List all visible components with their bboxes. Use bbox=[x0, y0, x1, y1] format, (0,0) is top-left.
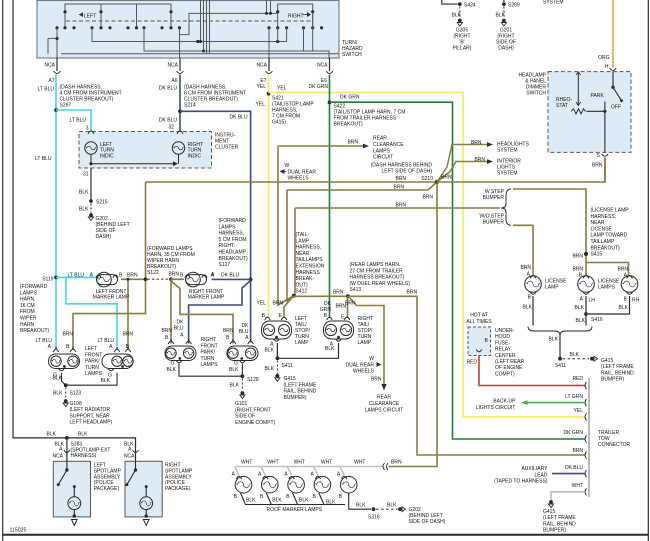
svg-text:NEAR: NEAR bbox=[296, 251, 310, 257]
svg-text:115025: 115025 bbox=[10, 528, 27, 534]
svg-text:YEL: YEL bbox=[277, 86, 287, 92]
svg-text:PACKAGE): PACKAGE) bbox=[94, 486, 120, 492]
svg-text:BLK: BLK bbox=[576, 318, 586, 324]
svg-text:WHT: WHT bbox=[241, 459, 252, 465]
svg-text:S424: S424 bbox=[464, 3, 476, 9]
svg-text:BRN: BRN bbox=[333, 290, 344, 296]
svg-text:BRN: BRN bbox=[127, 273, 138, 279]
svg-text:TURN: TURN bbox=[85, 365, 99, 371]
svg-text:PARK/: PARK/ bbox=[85, 359, 100, 365]
svg-text:32: 32 bbox=[168, 125, 174, 131]
svg-text:DK BLU: DK BLU bbox=[230, 115, 248, 121]
svg-text:S214: S214 bbox=[184, 103, 196, 109]
svg-text:BLK: BLK bbox=[167, 367, 177, 373]
svg-text:BLK: BLK bbox=[619, 305, 629, 311]
svg-text:G415: G415 bbox=[284, 376, 296, 382]
svg-text:FROM: FROM bbox=[20, 309, 35, 315]
svg-text:INDIC: INDIC bbox=[188, 153, 202, 159]
svg-text:HOOD: HOOD bbox=[495, 334, 510, 340]
svg-text:BRN: BRN bbox=[441, 175, 452, 181]
svg-text:DK BLU: DK BLU bbox=[565, 465, 583, 471]
svg-text:LEFT: LEFT bbox=[84, 13, 96, 19]
svg-text:LT BLU: LT BLU bbox=[70, 118, 87, 124]
svg-text:HARNESS,: HARNESS, bbox=[219, 231, 245, 237]
svg-text:WIPER: WIPER bbox=[20, 316, 37, 322]
svg-text:(LEFT FRAME: (LEFT FRAME bbox=[543, 515, 576, 521]
svg-text:SYSTEM: SYSTEM bbox=[497, 148, 518, 154]
svg-text:BRN: BRN bbox=[122, 332, 133, 338]
svg-text:CLEARANCE: CLEARANCE bbox=[373, 142, 404, 148]
svg-text:MARKER LAMP: MARKER LAMP bbox=[93, 295, 130, 301]
svg-text:BRN: BRN bbox=[422, 195, 433, 201]
svg-text:S415: S415 bbox=[591, 252, 603, 258]
svg-text:BACK-UP: BACK-UP bbox=[493, 399, 516, 405]
svg-text:YEL: YEL bbox=[574, 408, 584, 414]
svg-text:RED: RED bbox=[572, 376, 583, 382]
svg-text:DK BLU: DK BLU bbox=[221, 273, 239, 279]
svg-text:S215: S215 bbox=[96, 200, 108, 206]
svg-text:G101: G101 bbox=[235, 401, 247, 407]
svg-text:WHT: WHT bbox=[267, 459, 278, 465]
svg-text:S412: S412 bbox=[296, 289, 308, 295]
svg-text:S128: S128 bbox=[247, 377, 259, 383]
svg-text:DK BLU: DK BLU bbox=[159, 86, 177, 92]
svg-text:EXTENSION: EXTENSION bbox=[296, 264, 325, 270]
svg-text:S210: S210 bbox=[421, 176, 433, 182]
svg-text:HARNESS BREAKOUT): HARNESS BREAKOUT) bbox=[350, 275, 405, 281]
svg-text:LEFT HEADLAMP): LEFT HEADLAMP) bbox=[70, 420, 113, 426]
svg-text:3: 3 bbox=[86, 126, 89, 132]
svg-text:LICENSE: LICENSE bbox=[591, 226, 613, 232]
svg-text:BLK: BLK bbox=[47, 432, 57, 438]
svg-text:S316: S316 bbox=[368, 514, 380, 520]
svg-text:BLK: BLK bbox=[387, 503, 397, 509]
svg-text:BRN: BRN bbox=[347, 140, 358, 146]
svg-text:BRN: BRN bbox=[572, 254, 583, 260]
svg-text:CLEARANCE: CLEARANCE bbox=[369, 401, 400, 407]
svg-text:27 CM FROM TRAILER: 27 CM FROM TRAILER bbox=[350, 268, 404, 274]
svg-text:PARK: PARK bbox=[591, 93, 605, 99]
svg-text:BLK: BLK bbox=[101, 378, 111, 384]
svg-text:G202: G202 bbox=[409, 507, 421, 513]
svg-text:BUMPER): BUMPER) bbox=[543, 528, 566, 534]
svg-text:UNDER-: UNDER- bbox=[495, 328, 515, 334]
svg-text:CONNECTOR: CONNECTOR bbox=[598, 442, 631, 448]
svg-text:LT BLU: LT BLU bbox=[38, 87, 55, 93]
svg-text:DASH): DASH) bbox=[96, 234, 112, 240]
svg-text:NCA: NCA bbox=[256, 63, 267, 69]
svg-text:YEL: YEL bbox=[257, 301, 267, 307]
svg-text:S416: S416 bbox=[591, 317, 603, 323]
svg-text:BLK: BLK bbox=[299, 498, 309, 504]
svg-text:FRONT: FRONT bbox=[201, 343, 218, 349]
svg-text:SIDE OF: SIDE OF bbox=[235, 414, 255, 420]
svg-text:BLK: BLK bbox=[575, 305, 585, 311]
svg-text:BLK: BLK bbox=[53, 391, 63, 397]
svg-text:BRN: BRN bbox=[592, 163, 603, 169]
svg-text:(TAPED TO HARNESS): (TAPED TO HARNESS) bbox=[494, 479, 548, 485]
svg-text:BLK: BLK bbox=[229, 367, 239, 373]
svg-text:LAMP: LAMP bbox=[296, 238, 310, 244]
svg-text:NCA: NCA bbox=[124, 453, 135, 459]
svg-text:LEFT SIDE OF DASH): LEFT SIDE OF DASH) bbox=[382, 169, 433, 175]
svg-text:CIRCUIT: CIRCUIT bbox=[373, 155, 393, 161]
svg-text:BRN: BRN bbox=[391, 459, 402, 465]
svg-text:DK GRN: DK GRN bbox=[309, 84, 329, 90]
svg-text:(FORWARD LAMPS: (FORWARD LAMPS bbox=[147, 246, 193, 252]
svg-text:(BEHIND LEFT: (BEHIND LEFT bbox=[409, 513, 443, 519]
svg-text:AUXILIARY: AUXILIARY bbox=[521, 466, 548, 472]
svg-text:LAMP: LAMP bbox=[358, 340, 372, 346]
svg-text:FUSE-: FUSE- bbox=[495, 340, 510, 346]
svg-text:RELAY: RELAY bbox=[495, 347, 512, 353]
svg-text:(LICENSE LAMP: (LICENSE LAMP bbox=[591, 208, 630, 214]
svg-text:LAMP: LAMP bbox=[295, 340, 309, 346]
svg-text:31: 31 bbox=[83, 172, 89, 178]
svg-text:BLK: BLK bbox=[265, 348, 275, 354]
svg-text:BRN: BRN bbox=[407, 290, 418, 296]
svg-text:GRN: GRN bbox=[320, 307, 332, 313]
svg-text:BREAKOUT): BREAKOUT) bbox=[591, 245, 621, 251]
svg-text:HARNESS): HARNESS) bbox=[71, 453, 97, 459]
svg-text:(FORWARD: (FORWARD bbox=[219, 218, 247, 224]
svg-text:S269: S269 bbox=[508, 3, 520, 9]
svg-text:BLK: BLK bbox=[246, 498, 256, 504]
svg-text:BRN: BRN bbox=[168, 272, 179, 278]
svg-text:BRN: BRN bbox=[272, 301, 283, 307]
svg-text:LEFT: LEFT bbox=[85, 346, 97, 352]
svg-text:S122: S122 bbox=[147, 270, 159, 276]
svg-text:LT BLU: LT BLU bbox=[68, 273, 85, 279]
svg-text:HOT AT: HOT AT bbox=[470, 313, 488, 319]
svg-text:BRN: BRN bbox=[471, 140, 482, 146]
svg-text:RAIL, BEHIND: RAIL, BEHIND bbox=[601, 370, 634, 376]
svg-text:BLK: BLK bbox=[523, 305, 533, 311]
svg-text:NEAR: NEAR bbox=[591, 220, 605, 226]
svg-text:WHT: WHT bbox=[354, 459, 365, 465]
svg-text:OUT): OUT) bbox=[296, 282, 309, 288]
svg-text:BREAKOUT): BREAKOUT) bbox=[334, 122, 364, 128]
svg-text:G: G bbox=[108, 373, 112, 379]
svg-text:WHEELS: WHEELS bbox=[353, 369, 375, 375]
svg-text:NCA: NCA bbox=[167, 63, 178, 69]
svg-text:BRN: BRN bbox=[395, 203, 406, 209]
svg-text:ROOF MARKER LAMPS: ROOF MARKER LAMPS bbox=[267, 507, 323, 513]
svg-text:S119: S119 bbox=[42, 277, 54, 283]
svg-text:LT BLU: LT BLU bbox=[35, 156, 52, 162]
svg-text:ORG: ORG bbox=[598, 55, 610, 61]
svg-text:YEL: YEL bbox=[256, 102, 266, 108]
svg-text:HARNESS,: HARNESS, bbox=[591, 214, 617, 220]
svg-text:BRN: BRN bbox=[345, 301, 356, 307]
svg-text:S411: S411 bbox=[282, 363, 294, 369]
svg-text:(LEFT REAR: (LEFT REAR bbox=[495, 359, 524, 365]
svg-text:S411: S411 bbox=[555, 363, 567, 369]
svg-text:PACKAGE): PACKAGE) bbox=[165, 486, 191, 492]
svg-text:LH: LH bbox=[589, 298, 596, 304]
svg-text:BREAKOUT): BREAKOUT) bbox=[147, 264, 177, 270]
svg-text:BRN: BRN bbox=[474, 157, 485, 163]
svg-text:G108: G108 bbox=[70, 401, 82, 407]
svg-text:HARN,: HARN, bbox=[20, 297, 36, 303]
svg-text:PARK/: PARK/ bbox=[201, 350, 216, 356]
svg-text:LT GRN: LT GRN bbox=[565, 394, 583, 400]
svg-text:BLK: BLK bbox=[265, 366, 275, 372]
svg-text:BLK: BLK bbox=[78, 432, 88, 438]
svg-text:(LEFT RADIATOR: (LEFT RADIATOR bbox=[70, 407, 111, 413]
svg-text:(REAR LAMPS HARN,: (REAR LAMPS HARN, bbox=[350, 262, 401, 268]
svg-text:BLK: BLK bbox=[230, 383, 240, 389]
svg-text:LEAD: LEAD bbox=[534, 472, 547, 478]
svg-text:RIGHT: RIGHT bbox=[201, 337, 217, 343]
svg-text:S267: S267 bbox=[60, 103, 72, 109]
svg-text:SIDE OF DASH): SIDE OF DASH) bbox=[409, 519, 446, 525]
svg-text:LAMPS CIRCUIT: LAMPS CIRCUIT bbox=[365, 407, 404, 413]
svg-text:LIGHTS CIRCUIT: LIGHTS CIRCUIT bbox=[476, 405, 516, 411]
svg-text:S413: S413 bbox=[350, 287, 362, 293]
svg-text:G: G bbox=[53, 373, 57, 379]
svg-text:OFF: OFF bbox=[611, 105, 621, 111]
svg-text:BUMPER: BUMPER bbox=[483, 195, 505, 201]
svg-text:NCA: NCA bbox=[52, 453, 63, 459]
svg-text:LAMPS: LAMPS bbox=[598, 285, 616, 291]
svg-text:NCA: NCA bbox=[44, 63, 55, 69]
svg-text:G: G bbox=[171, 361, 175, 367]
svg-text:A6: A6 bbox=[171, 78, 177, 84]
svg-text:LICENSE: LICENSE bbox=[545, 279, 567, 285]
svg-text:BLK: BLK bbox=[549, 337, 559, 343]
svg-text:LAMP: LAMP bbox=[545, 285, 559, 291]
svg-text:RED: RED bbox=[466, 360, 477, 366]
svg-text:(LEFT FRAME: (LEFT FRAME bbox=[601, 364, 634, 370]
svg-text:HARNESS: HARNESS bbox=[296, 270, 321, 276]
svg-text:BRN: BRN bbox=[572, 448, 583, 454]
svg-text:BLK: BLK bbox=[356, 503, 366, 509]
svg-text:BRN: BRN bbox=[371, 377, 382, 383]
svg-text:ENGINE COMPT): ENGINE COMPT) bbox=[235, 420, 276, 426]
svg-text:BRN: BRN bbox=[161, 328, 172, 334]
svg-text:BRN: BRN bbox=[62, 332, 73, 338]
svg-text:S123: S123 bbox=[70, 391, 82, 397]
svg-text:G415: G415 bbox=[601, 358, 613, 364]
svg-text:A7: A7 bbox=[48, 78, 54, 84]
svg-text:LAMPS: LAMPS bbox=[373, 148, 391, 154]
svg-text:(RIGHT FRONT: (RIGHT FRONT bbox=[235, 407, 271, 413]
svg-text:WHT: WHT bbox=[321, 459, 332, 465]
svg-text:SYSTEM: SYSTEM bbox=[497, 171, 518, 177]
svg-text:W: W bbox=[285, 163, 290, 169]
svg-text:(LEFT FRAME: (LEFT FRAME bbox=[284, 382, 317, 388]
svg-text:TAILLAMP: TAILLAMP bbox=[591, 239, 615, 245]
svg-text:BRN: BRN bbox=[395, 176, 406, 182]
svg-text:CLUSTER: CLUSTER bbox=[215, 144, 239, 150]
svg-text:ALL TIMES: ALL TIMES bbox=[466, 319, 492, 325]
svg-text:YEL: YEL bbox=[257, 84, 267, 90]
svg-text:MARKER LAMP: MARKER LAMP bbox=[188, 295, 225, 301]
svg-text:HARN: HARN bbox=[20, 322, 35, 328]
svg-text:WHT: WHT bbox=[294, 459, 305, 465]
svg-text:DK GRN: DK GRN bbox=[340, 94, 360, 100]
svg-text:SYSTEM: SYSTEM bbox=[543, 0, 564, 5]
svg-text:RIGHT: RIGHT bbox=[288, 13, 304, 19]
svg-text:5 CM FROM: 5 CM FROM bbox=[219, 237, 247, 243]
svg-text:BREAKOUT): BREAKOUT) bbox=[20, 328, 50, 334]
svg-text:REAR: REAR bbox=[377, 395, 391, 401]
svg-text:WHEELS: WHEELS bbox=[288, 176, 310, 182]
svg-text:RH: RH bbox=[632, 298, 640, 304]
svg-text:SWITCH: SWITCH bbox=[342, 52, 362, 58]
svg-text:BLK: BLK bbox=[79, 207, 89, 213]
svg-text:REAR: REAR bbox=[373, 136, 387, 142]
svg-text:HEADLAMP: HEADLAMP bbox=[219, 250, 247, 256]
svg-text:S127: S127 bbox=[219, 262, 231, 268]
svg-text:LICENSE: LICENSE bbox=[598, 279, 620, 285]
svg-text:BLK: BLK bbox=[570, 352, 580, 358]
svg-text:BLK: BLK bbox=[79, 190, 89, 196]
svg-text:INDIC: INDIC bbox=[100, 153, 114, 159]
svg-text:DASH): DASH) bbox=[498, 46, 514, 52]
svg-text:BREAK-: BREAK- bbox=[296, 276, 315, 282]
svg-text:BUMPER): BUMPER) bbox=[601, 377, 624, 383]
svg-text:(FORWARD: (FORWARD bbox=[20, 284, 48, 290]
svg-text:DK GRN: DK GRN bbox=[564, 430, 584, 436]
svg-text:(W DUEL REAR WHEELS): (W DUEL REAR WHEELS) bbox=[350, 281, 411, 287]
svg-text:BLU: BLU bbox=[174, 326, 184, 332]
svg-text:G: G bbox=[234, 361, 238, 367]
svg-text:BREAKOUT): BREAKOUT) bbox=[219, 256, 249, 262]
svg-text:BUMPER): BUMPER) bbox=[284, 395, 307, 401]
svg-text:COMPT): COMPT) bbox=[495, 371, 515, 377]
svg-text:RAIL, BEHIND: RAIL, BEHIND bbox=[543, 521, 576, 527]
svg-text:W: W bbox=[369, 356, 374, 362]
svg-text:STAT: STAT bbox=[556, 103, 568, 109]
svg-text:SWITCH: SWITCH bbox=[526, 91, 546, 97]
svg-text:G415: G415 bbox=[543, 509, 555, 515]
svg-text:TURN: TURN bbox=[201, 356, 215, 362]
svg-text:WHT: WHT bbox=[572, 483, 583, 489]
svg-text:RIGHT: RIGHT bbox=[219, 243, 235, 249]
svg-text:(TAIL-: (TAIL- bbox=[296, 232, 310, 238]
svg-text:HARNESS,: HARNESS, bbox=[296, 245, 322, 251]
svg-text:SUPPORT, NEAR: SUPPORT, NEAR bbox=[70, 413, 111, 419]
svg-text:BRN: BRN bbox=[393, 185, 404, 191]
svg-text:BUMPER: BUMPER bbox=[483, 220, 505, 226]
svg-text:LAMPS: LAMPS bbox=[219, 224, 237, 230]
svg-text:BRN: BRN bbox=[223, 328, 234, 334]
svg-text:PILLAR): PILLAR) bbox=[453, 46, 472, 52]
svg-text:BLK: BLK bbox=[326, 500, 336, 506]
svg-text:H: H bbox=[605, 64, 609, 70]
svg-text:TAILLAMPS: TAILLAMPS bbox=[296, 257, 324, 263]
svg-text:FRONT: FRONT bbox=[85, 352, 102, 358]
svg-text:LAMPS: LAMPS bbox=[201, 362, 219, 368]
svg-text:LAMPS: LAMPS bbox=[20, 290, 38, 296]
svg-text:BLK: BLK bbox=[272, 498, 282, 504]
svg-text:LAMPS: LAMPS bbox=[85, 371, 103, 377]
svg-text:G415): G415) bbox=[272, 120, 286, 126]
svg-text:RAIL, BEHIND: RAIL, BEHIND bbox=[284, 389, 317, 395]
svg-text:DK BLU: DK BLU bbox=[159, 118, 177, 124]
svg-text:LAMP TOWARD: LAMP TOWARD bbox=[591, 233, 628, 239]
svg-text:BRN: BRN bbox=[520, 265, 531, 271]
svg-text:NCA: NCA bbox=[317, 63, 328, 69]
svg-text:BLK: BLK bbox=[325, 346, 335, 352]
svg-text:16 CM: 16 CM bbox=[20, 303, 35, 309]
svg-text:OF ENGINE: OF ENGINE bbox=[495, 365, 523, 371]
svg-text:CENTER: CENTER bbox=[495, 353, 516, 359]
